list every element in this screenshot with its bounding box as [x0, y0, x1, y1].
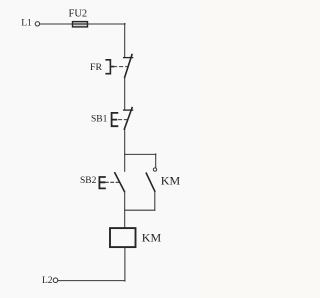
- node L2 terminal circle: [53, 278, 58, 283]
- SB1 NC contact moving blade: [124, 108, 132, 130]
- node L1 terminal circle: [35, 22, 39, 26]
- stop button SB1 actuator (E): [112, 113, 118, 126]
- SB2 NO contact moving blade: [115, 173, 125, 192]
- wire SB2 contact to lower junction and coil: [124, 191, 126, 228]
- svg-text:KM: KM: [142, 231, 162, 245]
- wire top corner down to FR contact: [124, 23, 126, 57]
- wire bottom corner to L2 terminal: [58, 280, 125, 282]
- svg-text:SB2: SB2: [80, 176, 97, 186]
- svg-text:L1: L1: [21, 18, 32, 28]
- wire trunk SB2 contact top: [124, 154, 126, 171]
- KM NO contact moving blade: [146, 173, 155, 191]
- dashed link FR element to FR contact: [114, 66, 128, 68]
- KM NO contact top terminal hook circle: [153, 168, 156, 171]
- SB1 NC contact fixed seat tick: [124, 109, 133, 111]
- start button SB2 actuator (E): [99, 177, 105, 188]
- wire KM branch corner down to KM contact: [155, 154, 157, 168]
- wire L1 to fuse FU2: [40, 23, 73, 25]
- contactor coil KM body: [110, 228, 136, 247]
- FR NC contact moving blade: [125, 55, 132, 78]
- svg-text:SB1: SB1: [91, 115, 108, 125]
- svg-text:FU2: FU2: [69, 9, 88, 20]
- svg-text:L2: L2: [42, 276, 53, 286]
- wire coil KM to bottom corner: [124, 247, 126, 281]
- dashed link SB2 actuator to contact: [105, 181, 118, 183]
- svg-text:KM: KM: [161, 173, 181, 187]
- wire KM contact to lower junction: [154, 191, 156, 210]
- wire SB1 contact to parallel junction: [124, 129, 126, 154]
- wire through fuse FU2: [73, 23, 88, 25]
- svg-text:FR: FR: [90, 62, 102, 73]
- wire lower junction horizontal: [125, 209, 155, 211]
- thermal relay FR drive element (bracket): [106, 60, 113, 74]
- wire fuse FU2 to top corner: [88, 23, 126, 25]
- FR NC contact fixed seat tick: [124, 57, 133, 59]
- fuse FU2 body: [73, 22, 88, 27]
- dashed link SB1 actuator to contact: [119, 119, 128, 121]
- wire junction to KM branch corner: [125, 153, 156, 155]
- wire FR contact to SB1 contact: [124, 78, 126, 110]
